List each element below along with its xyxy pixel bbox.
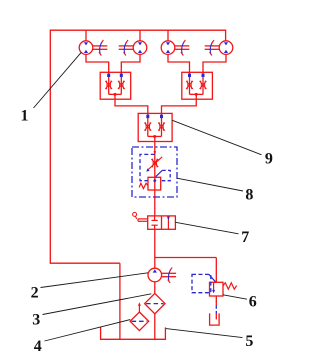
svg-text:7: 7: [241, 229, 249, 246]
svg-text:3: 3: [32, 311, 40, 328]
svg-text:6: 6: [249, 293, 257, 310]
svg-text:9: 9: [265, 150, 273, 167]
svg-text:2: 2: [31, 285, 39, 302]
svg-text:8: 8: [245, 186, 253, 203]
svg-text:4: 4: [34, 338, 42, 355]
svg-text:1: 1: [21, 108, 29, 125]
svg-text:5: 5: [245, 333, 253, 350]
